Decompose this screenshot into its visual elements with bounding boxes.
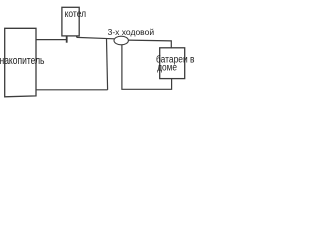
- boiler left pipe stub: [66, 36, 68, 43]
- svg-text:накопитель: накопитель: [0, 55, 45, 67]
- wire tank top to boiler: [36, 39, 67, 41]
- wire valve to radiators bottom: [122, 45, 172, 90]
- boiler right pipe stub: [76, 36, 78, 38]
- svg-text:3-х ходовой: 3-х ходовой: [108, 27, 155, 37]
- wire valve to radiators top: [128, 40, 172, 48]
- wire return riser (junction to bottom): [107, 39, 108, 90]
- 3-way valve ellipse: [114, 36, 128, 45]
- svg-text:доме: доме: [157, 63, 177, 74]
- wire boiler to valve: [77, 37, 115, 38]
- storage tank box (накопитель): [5, 28, 36, 97]
- boiler box (котел): [62, 7, 79, 36]
- wire tank bottom return: [36, 89, 108, 91]
- svg-text:котел: котел: [65, 9, 87, 20]
- radiators box (батареи в доме): [160, 48, 185, 79]
